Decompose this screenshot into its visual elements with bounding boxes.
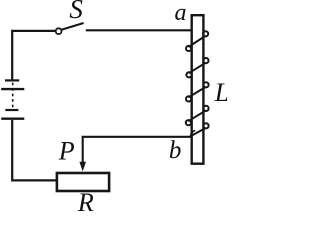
coil L turn 4 front strand	[188, 111, 205, 122]
battery cell plate long (bottom)	[1, 117, 24, 119]
svg-text:b: b	[169, 137, 182, 164]
coil exit curl at b	[191, 131, 196, 137]
svg-text:S: S	[69, 0, 83, 24]
coil L turn 3 left loop	[186, 96, 191, 101]
rheostat R box	[57, 173, 109, 191]
battery dashed continuation	[12, 83, 14, 109]
coil L turn 4 left loop	[186, 120, 191, 125]
coil L turn 2 front strand	[189, 63, 206, 73]
slider P arrowhead	[79, 162, 86, 172]
switch S pivot circle	[56, 28, 62, 34]
wire: switch to coil terminal a	[86, 29, 193, 31]
wire: battery down, bottom corner to rheostat	[12, 120, 56, 180]
coil L turn 3 front strand	[188, 87, 205, 97]
svg-text:R: R	[77, 188, 94, 213]
battery cell plate long (top)	[1, 88, 24, 90]
coil L turn 1 left loop	[186, 46, 191, 51]
coil L turn 2 right loop	[203, 58, 208, 63]
wire: slider P horizontal from coil b	[83, 137, 191, 163]
svg-text:L: L	[214, 78, 227, 107]
battery cell plate short (top)	[5, 79, 19, 81]
coil L turn 5 right loop	[203, 123, 208, 128]
battery cell plate short (bottom)	[5, 109, 18, 111]
svg-text:a: a	[175, 0, 187, 26]
coil L turn 5 front strand to exit	[190, 128, 205, 136]
switch S lever	[61, 23, 83, 30]
wire: top-left corner, left vertical down to battery	[12, 31, 56, 80]
coil L turn 1 right loop	[203, 31, 208, 36]
iron core bar	[192, 15, 204, 164]
coil L turn 2 left loop	[186, 72, 191, 77]
svg-text:P: P	[58, 137, 75, 166]
coil L turn 1 front strand	[188, 36, 205, 47]
coil L turn 3 right loop	[203, 82, 208, 87]
coil L turn 4 right loop	[203, 106, 208, 111]
